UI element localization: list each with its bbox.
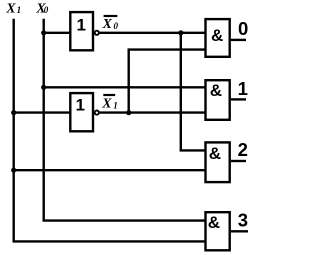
D2 output wire: [231, 160, 246, 162]
svg-text:0: 0: [114, 21, 119, 31]
wire X0 to AND D1 input A: [44, 86, 206, 88]
svg-text:3: 3: [238, 210, 248, 231]
net label X̄0: [104, 15, 118, 17]
AND gate D1 box: [206, 80, 230, 120]
svg-text:0: 0: [238, 18, 248, 39]
svg-text:2: 2: [238, 139, 248, 160]
node junction X1/D2: [11, 168, 16, 173]
node junction X0/U1: [41, 30, 46, 35]
svg-text:0: 0: [44, 5, 49, 15]
wire X1 input (vertical then along bottom to AND3 input B): [14, 19, 206, 242]
AND gate D3 box: [206, 212, 230, 250]
svg-text:1: 1: [113, 100, 118, 110]
U1 output bubble: [95, 31, 99, 35]
wire X̄0 branch down to AND D2 input A: [181, 33, 206, 151]
wire X0 input (vertical then along bottom to AND3 input A): [44, 19, 206, 221]
svg-text:1: 1: [75, 95, 84, 114]
svg-text:1: 1: [76, 16, 85, 35]
svg-text:X: X: [5, 2, 16, 17]
wire X̄1 branch up to AND D0 input B: [129, 50, 206, 113]
svg-text:X: X: [102, 17, 113, 32]
node junction X̄0 branch: [178, 30, 183, 35]
wire X0 to inverter U1 input: [44, 32, 71, 34]
D0 output wire: [231, 39, 246, 41]
svg-text:1: 1: [17, 5, 22, 15]
D1 output wire: [231, 98, 246, 100]
inverter U2 box: [70, 93, 93, 131]
U2 output bubble: [95, 111, 99, 115]
node junction X̄1 branch: [126, 110, 131, 115]
wire U2 output (X̄1) to AND D1 input B: [100, 111, 206, 113]
svg-text:&: &: [211, 26, 223, 45]
svg-text:1: 1: [238, 78, 248, 99]
D3 output wire: [231, 230, 248, 232]
wire X1 to AND D2 input B: [14, 169, 206, 171]
wire U1 output (X̄0) to AND D0 input A: [100, 32, 206, 34]
AND gate D0 box: [206, 19, 230, 57]
node junction X0/D1: [41, 85, 46, 90]
svg-text:&: &: [209, 144, 221, 163]
svg-text:X: X: [101, 97, 112, 112]
wire X1 to inverter U2 input: [14, 111, 71, 113]
svg-text:&: &: [210, 81, 222, 100]
AND gate D2 box: [206, 142, 230, 182]
inverter U1 box: [70, 12, 93, 50]
svg-text:&: &: [208, 213, 220, 232]
net label X̄1: [103, 94, 115, 96]
node junction X1/U2: [11, 110, 16, 115]
